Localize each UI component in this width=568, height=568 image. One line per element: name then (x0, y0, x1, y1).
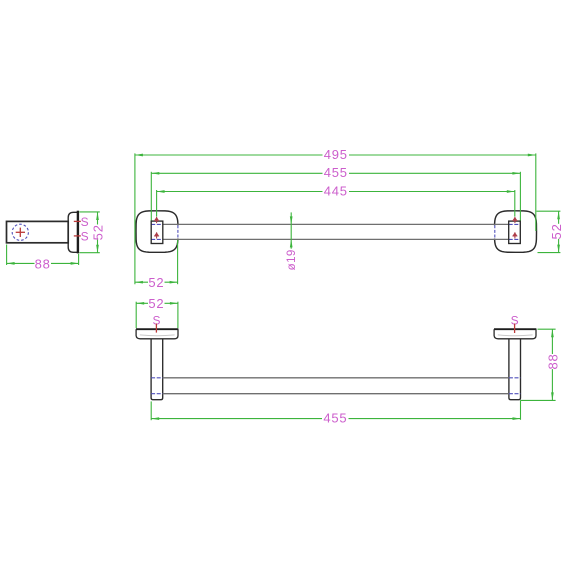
dimension 88 (bottom view) (521, 329, 561, 400)
towel bar (front view) (162, 224, 509, 239)
right bracket (509, 221, 521, 243)
svg-text:S: S (81, 215, 89, 229)
dimension 455 (bottom view) (151, 400, 520, 425)
dimension 455 (front) (151, 165, 520, 220)
svg-text:455: 455 (323, 411, 347, 426)
svg-text:445: 445 (324, 183, 348, 198)
svg-text:ø19: ø19 (286, 249, 298, 270)
S label left (bottom view) (152, 314, 160, 333)
dimension 495 (135, 147, 536, 284)
screw markers left bracket (154, 217, 159, 239)
side view wall plate profile (68, 212, 78, 252)
dimension 88 side view (7, 245, 79, 272)
bottom view right arm (509, 339, 521, 400)
screw center cross (16, 228, 25, 237)
hidden mount edge behind bar (right) (493, 225, 496, 238)
front view right mount squircle (495, 211, 537, 253)
S label right (bottom view) (511, 314, 519, 334)
left bracket (151, 221, 163, 243)
svg-text:52: 52 (90, 224, 105, 240)
hidden screw circle (dashed) (12, 224, 28, 240)
svg-text:495: 495 (324, 147, 348, 162)
screw axis ticks on face (74, 221, 81, 236)
svg-text:52: 52 (148, 275, 164, 290)
svg-text:88: 88 (35, 256, 51, 271)
bottom view left plate (136, 329, 178, 339)
svg-text:S: S (81, 230, 89, 244)
svg-text:455: 455 (324, 165, 348, 180)
bottom view right plate (494, 329, 536, 339)
S labels side view (81, 215, 89, 244)
dimension 52 side view (79, 212, 105, 253)
side view arm (7, 221, 69, 242)
bar hidden lines inside brackets (dashed) (151, 224, 520, 239)
dimension phi19 (286, 212, 298, 270)
hidden bar lines inside arms (dashed) (151, 378, 520, 394)
svg-text:52: 52 (148, 296, 164, 311)
screw markers right bracket (512, 217, 517, 239)
hidden mount edge behind bar (left) (176, 225, 179, 238)
svg-text:52: 52 (549, 223, 564, 239)
svg-text:88: 88 (545, 353, 560, 369)
front view left mount squircle (136, 211, 178, 253)
dimension 52 right side of front view (537, 211, 565, 252)
dimension 52 below left mount (135, 240, 178, 290)
towel bar (bottom view) (163, 378, 509, 394)
bottom view left arm (151, 339, 163, 400)
dimension 445 (157, 183, 515, 216)
dimension 52 (bottom view) (136, 296, 178, 328)
side view wall face line (77, 211, 79, 254)
